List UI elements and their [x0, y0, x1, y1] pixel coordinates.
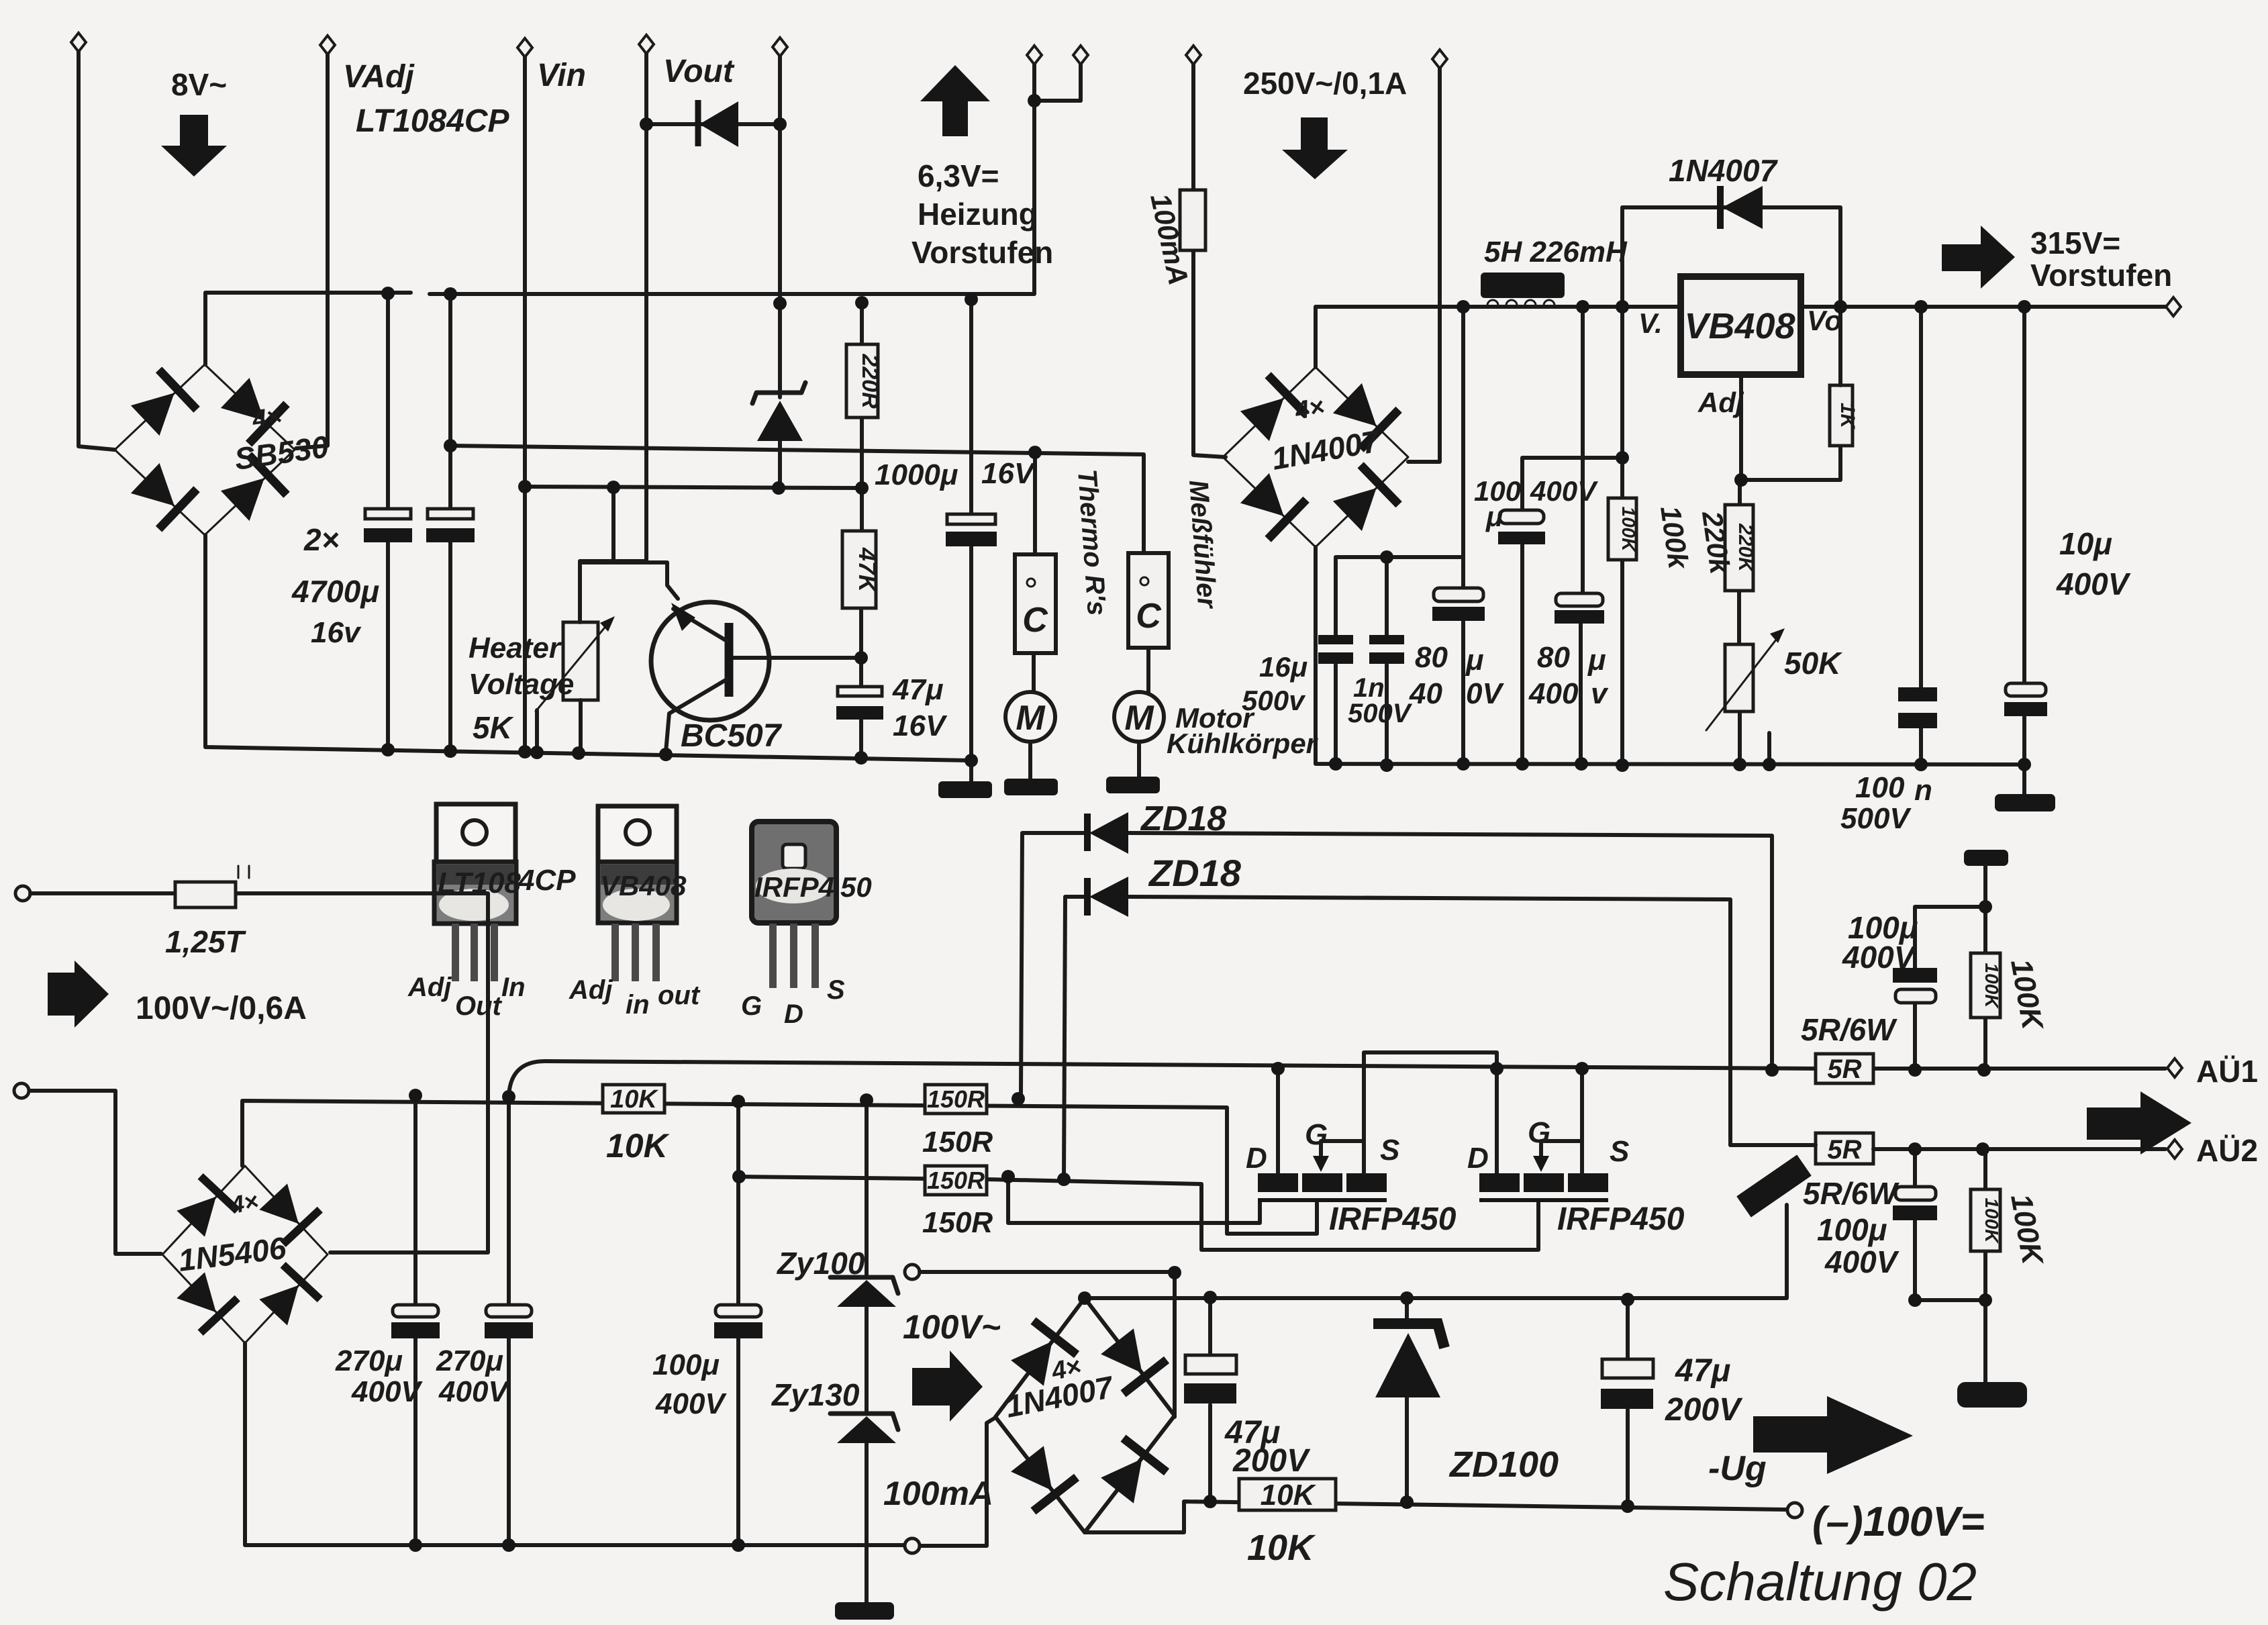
svg-text:100K: 100K [1981, 963, 2002, 1010]
svg-text:Zy130: Zy130 [771, 1377, 860, 1412]
svg-text:M: M [1124, 699, 1154, 738]
svg-text:5R: 5R [1827, 1054, 1861, 1084]
svg-text:Adj: Adj [407, 973, 452, 1002]
svg-text:80: 80 [1415, 641, 1448, 674]
svg-text:Heizung: Heizung [918, 197, 1038, 232]
svg-text:VAdj: VAdj [343, 59, 415, 95]
svg-text:400V: 400V [1824, 1244, 1900, 1279]
svg-text:10K: 10K [606, 1127, 671, 1165]
svg-text:ZD18: ZD18 [1140, 799, 1226, 838]
svg-text:4×: 4× [250, 402, 283, 434]
svg-text:100K: 100K [1981, 1198, 2002, 1244]
svg-text:220R: 220R [857, 353, 883, 409]
svg-text:Schaltung 02: Schaltung 02 [1663, 1552, 1977, 1612]
svg-text:16μ: 16μ [1259, 651, 1308, 683]
svg-text:500V: 500V [1840, 802, 1912, 835]
svg-text:100: 100 [1855, 771, 1905, 804]
svg-text:50: 50 [840, 871, 872, 903]
svg-text:150R: 150R [927, 1085, 985, 1113]
svg-text:ZD18: ZD18 [1148, 852, 1242, 894]
svg-text:10K: 10K [1247, 1528, 1316, 1568]
svg-text:5R/6W: 5R/6W [1801, 1012, 1897, 1047]
svg-text:1000μ: 1000μ [875, 458, 958, 491]
svg-text:150R: 150R [922, 1126, 993, 1159]
svg-text:Out: Out [455, 991, 503, 1021]
svg-text:200V: 200V [1665, 1392, 1743, 1428]
svg-text:400V: 400V [2056, 567, 2131, 601]
svg-text:100K: 100K [1618, 507, 1639, 553]
svg-text:μ: μ [1587, 644, 1606, 677]
svg-text:47K: 47K [854, 547, 881, 594]
svg-text:VB408: VB408 [600, 870, 687, 901]
svg-text:Vout: Vout [663, 54, 735, 89]
svg-text:VB408: VB408 [1684, 306, 1795, 346]
svg-text:LT1084CP: LT1084CP [356, 103, 510, 139]
svg-text:400V: 400V [351, 1375, 423, 1408]
svg-text:5K: 5K [473, 710, 514, 745]
svg-text:C: C [1022, 601, 1048, 640]
svg-text:1N4007: 1N4007 [1669, 153, 1779, 188]
svg-text:-Ug: -Ug [1708, 1449, 1767, 1488]
svg-text:8V~: 8V~ [171, 67, 227, 102]
svg-text:D: D [1467, 1142, 1489, 1175]
svg-text:V.: V. [1638, 307, 1663, 339]
svg-text:S: S [1380, 1134, 1399, 1167]
svg-text:100μ: 100μ [1817, 1212, 1887, 1247]
svg-text:μ: μ [1465, 644, 1484, 677]
svg-text:50K: 50K [1784, 646, 1842, 681]
svg-text:5R: 5R [1827, 1135, 1861, 1165]
svg-text:Vorstufen: Vorstufen [911, 235, 1053, 270]
svg-text:400V: 400V [655, 1387, 727, 1420]
svg-text:100μ: 100μ [652, 1348, 720, 1381]
svg-text:G: G [1528, 1116, 1550, 1149]
svg-text:(–)100V=: (–)100V= [1812, 1499, 1985, 1545]
svg-text:Vorstufen: Vorstufen [2030, 258, 2172, 293]
svg-text:4×: 4× [228, 1187, 260, 1219]
svg-text:AÜ1: AÜ1 [2196, 1054, 2258, 1089]
svg-text:In: In [501, 973, 526, 1002]
svg-text:10K: 10K [1261, 1479, 1317, 1512]
svg-text:D: D [1246, 1142, 1267, 1175]
svg-text:D: D [784, 999, 803, 1029]
svg-text:4CP: 4CP [517, 864, 576, 897]
svg-text:Adj: Adj [569, 975, 613, 1005]
svg-text:500v: 500v [1242, 685, 1306, 716]
svg-text:AÜ2: AÜ2 [2196, 1133, 2258, 1168]
svg-text:16v: 16v [311, 616, 362, 649]
svg-text:100mA: 100mA [883, 1475, 993, 1512]
svg-text:220K: 220K [1734, 523, 1757, 573]
svg-text:10K: 10K [610, 1085, 658, 1114]
svg-text:47μ: 47μ [892, 673, 943, 706]
svg-text:47μ: 47μ [1675, 1353, 1730, 1389]
svg-text:in: in [626, 990, 650, 1020]
svg-text:Adj: Adj [1697, 387, 1744, 418]
svg-text:400: 400 [1528, 677, 1579, 710]
svg-text:2×: 2× [303, 522, 339, 557]
svg-text:4×: 4× [1292, 393, 1326, 426]
svg-text:Voltage: Voltage [469, 668, 574, 701]
svg-text:16V: 16V [981, 457, 1036, 490]
svg-text:out: out [658, 981, 701, 1010]
svg-text:n: n [1914, 774, 1932, 807]
svg-text:80: 80 [1537, 641, 1570, 674]
svg-text:Heater: Heater [469, 632, 562, 664]
svg-text:100V~/0,6A: 100V~/0,6A [136, 991, 307, 1026]
svg-text:M: M [1016, 699, 1046, 738]
svg-text:100V~: 100V~ [903, 1308, 1001, 1346]
svg-text:0V: 0V [1466, 677, 1504, 710]
svg-text:250V~/0,1A: 250V~/0,1A [1243, 66, 1407, 101]
svg-text:Zy100: Zy100 [776, 1246, 865, 1281]
svg-text:4700μ: 4700μ [291, 574, 379, 609]
svg-text:S: S [827, 975, 845, 1005]
svg-text:5H 226mH: 5H 226mH [1484, 236, 1628, 268]
svg-text:G: G [1305, 1118, 1328, 1151]
svg-text:v: v [1591, 677, 1609, 710]
svg-text:16V: 16V [893, 709, 948, 742]
svg-text:S: S [1610, 1135, 1629, 1168]
svg-text:200V: 200V [1232, 1443, 1311, 1479]
svg-text:150R: 150R [927, 1167, 985, 1194]
svg-text:μ: μ [1485, 501, 1503, 532]
svg-text:1K: 1K [1836, 403, 1859, 430]
svg-text:G: G [741, 991, 762, 1021]
svg-text:1,25T: 1,25T [165, 924, 247, 959]
svg-text:Kühlkörper: Kühlkörper [1167, 728, 1319, 759]
svg-text:315V=: 315V= [2030, 226, 2120, 260]
svg-text:270μ: 270μ [436, 1344, 503, 1377]
svg-text:IRFP450: IRFP450 [1329, 1201, 1457, 1237]
svg-text:Vin: Vin [537, 58, 586, 93]
svg-text:400V: 400V [1842, 940, 1917, 975]
svg-text:500V: 500V [1348, 699, 1413, 728]
svg-text:40: 40 [1409, 677, 1442, 710]
svg-text:C: C [1136, 597, 1162, 636]
svg-text:10μ: 10μ [2059, 526, 2112, 561]
svg-text:BC507: BC507 [681, 718, 783, 754]
svg-text:Vo: Vo [1807, 305, 1842, 336]
svg-text:400V: 400V [1530, 475, 1598, 507]
svg-text:150R: 150R [922, 1206, 993, 1239]
svg-text:400V: 400V [438, 1375, 510, 1408]
svg-text:IRFP4: IRFP4 [754, 871, 834, 903]
svg-text:5R/6W: 5R/6W [1803, 1176, 1900, 1211]
svg-text:270μ: 270μ [335, 1344, 403, 1377]
svg-text:6,3V=: 6,3V= [918, 158, 999, 193]
svg-text:IRFP450: IRFP450 [1557, 1201, 1685, 1237]
svg-text:ZD100: ZD100 [1448, 1444, 1559, 1485]
